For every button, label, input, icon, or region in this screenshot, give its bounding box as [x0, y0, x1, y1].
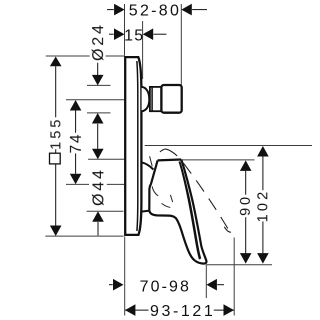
ext line bottom left x=124.7: [124, 237, 126, 316]
handle boss upper arc: [141, 162, 153, 169]
plate inner edge line: [136, 61, 139, 231]
dimension 52-80: [107, 3, 207, 20]
knob cap: [161, 85, 181, 113]
handle blade inner edge: [179, 162, 199, 260]
ext line 102 top y=145.8: [145, 145, 312, 147]
raised position dash near boss: [150, 156, 153, 166]
ext line blade tip bottom y=264.4: [206, 264, 272, 266]
ext line left top x=124.5: [124, 4, 126, 56]
svg-text:15: 15: [124, 27, 144, 44]
handle surface detail arc: [152, 186, 158, 196]
dimension square 155: [48, 57, 64, 237]
svg-text:90: 90: [238, 194, 254, 216]
handle left edge: [149, 160, 157, 210]
escutcheon plate: [125, 57, 141, 235]
handle surface detail line: [162, 203, 171, 207]
svg-text:Ø24: Ø24: [90, 22, 107, 61]
ext line 15 right x=142.6: [142, 21, 144, 79]
handle bottom edge: [149, 210, 195, 261]
knob neck ring: [151, 87, 153, 111]
dimension 90: [238, 160, 254, 263]
ext line dia24 top y=85.4: [87, 84, 111, 86]
dimension 93-121: [125, 303, 234, 320]
dimension dia 24: [90, 22, 107, 149]
svg-text:155: 155: [48, 117, 64, 150]
ext line dia24 bottom y=112.9: [87, 112, 111, 114]
handle boss lower edge: [141, 211, 149, 212]
svg-text:52-80: 52-80: [129, 3, 181, 20]
dimension 15: [109, 27, 167, 44]
dimension 70-98: [109, 279, 224, 296]
handle blade outer edge: [181, 160, 206, 264]
svg-text:74: 74: [68, 133, 85, 154]
handle body fill: [149, 160, 206, 264]
dimension 74: [68, 100, 85, 184]
handle top edge: [158, 158, 182, 161]
raised handle dashed blade edge: [183, 163, 228, 230]
ext line square155 top y=55.5: [46, 55, 90, 57]
dimension 102: [255, 146, 271, 264]
svg-text:Ø44: Ø44: [91, 167, 108, 206]
svg-text:70-98: 70-98: [140, 279, 191, 296]
raised handle peak curve: [160, 149, 177, 156]
raised handle dashed tip hook: [224, 227, 233, 232]
ext line 70-98 right x=206.3: [205, 265, 207, 299]
ext line square155 bottom y=236.1: [45, 235, 123, 237]
svg-text:102: 102: [255, 189, 271, 223]
dimension dia 44: [91, 149, 108, 236]
ext line dia44 top y=159.2: [88, 158, 125, 160]
ext line 90 top y=159.3: [182, 159, 255, 161]
ext line dia44 bottom y=211.2: [87, 210, 124, 212]
ext line 52-80 right x=181.3: [180, 4, 182, 85]
ext line 74 top y=99.8: [66, 99, 124, 101]
ext line 93-121 right x=234.2: [233, 238, 235, 316]
ext line 74 bottom y=184.4: [66, 183, 89, 185]
svg-text:93-121: 93-121: [150, 303, 215, 320]
handle blade middle line: [180, 164, 200, 259]
knob neck: [150, 87, 161, 111]
knob dome bump: [142, 87, 150, 111]
handle surface detail dash: [170, 195, 172, 202]
